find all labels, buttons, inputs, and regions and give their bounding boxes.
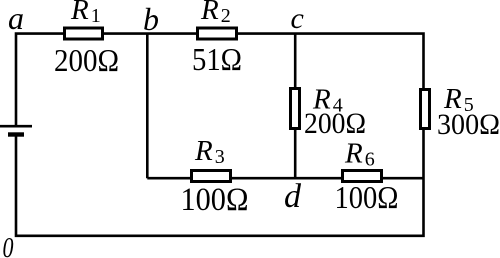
svg-text:0: 0	[3, 233, 14, 258]
svg-text:51Ω: 51Ω	[192, 41, 242, 77]
svg-text:c: c	[291, 2, 304, 35]
svg-text:R1: R1	[70, 0, 101, 27]
svg-text:200Ω: 200Ω	[54, 42, 119, 78]
svg-text:d: d	[284, 178, 302, 215]
svg-text:R3: R3	[194, 135, 225, 168]
svg-text:100Ω: 100Ω	[335, 179, 399, 215]
svg-text:a: a	[8, 0, 24, 36]
svg-text:R6: R6	[344, 138, 375, 171]
svg-text:R2: R2	[200, 0, 231, 27]
svg-text:300Ω: 300Ω	[437, 108, 500, 141]
svg-text:100Ω: 100Ω	[181, 182, 249, 218]
svg-text:200Ω: 200Ω	[304, 107, 366, 140]
svg-text:b: b	[143, 1, 159, 37]
